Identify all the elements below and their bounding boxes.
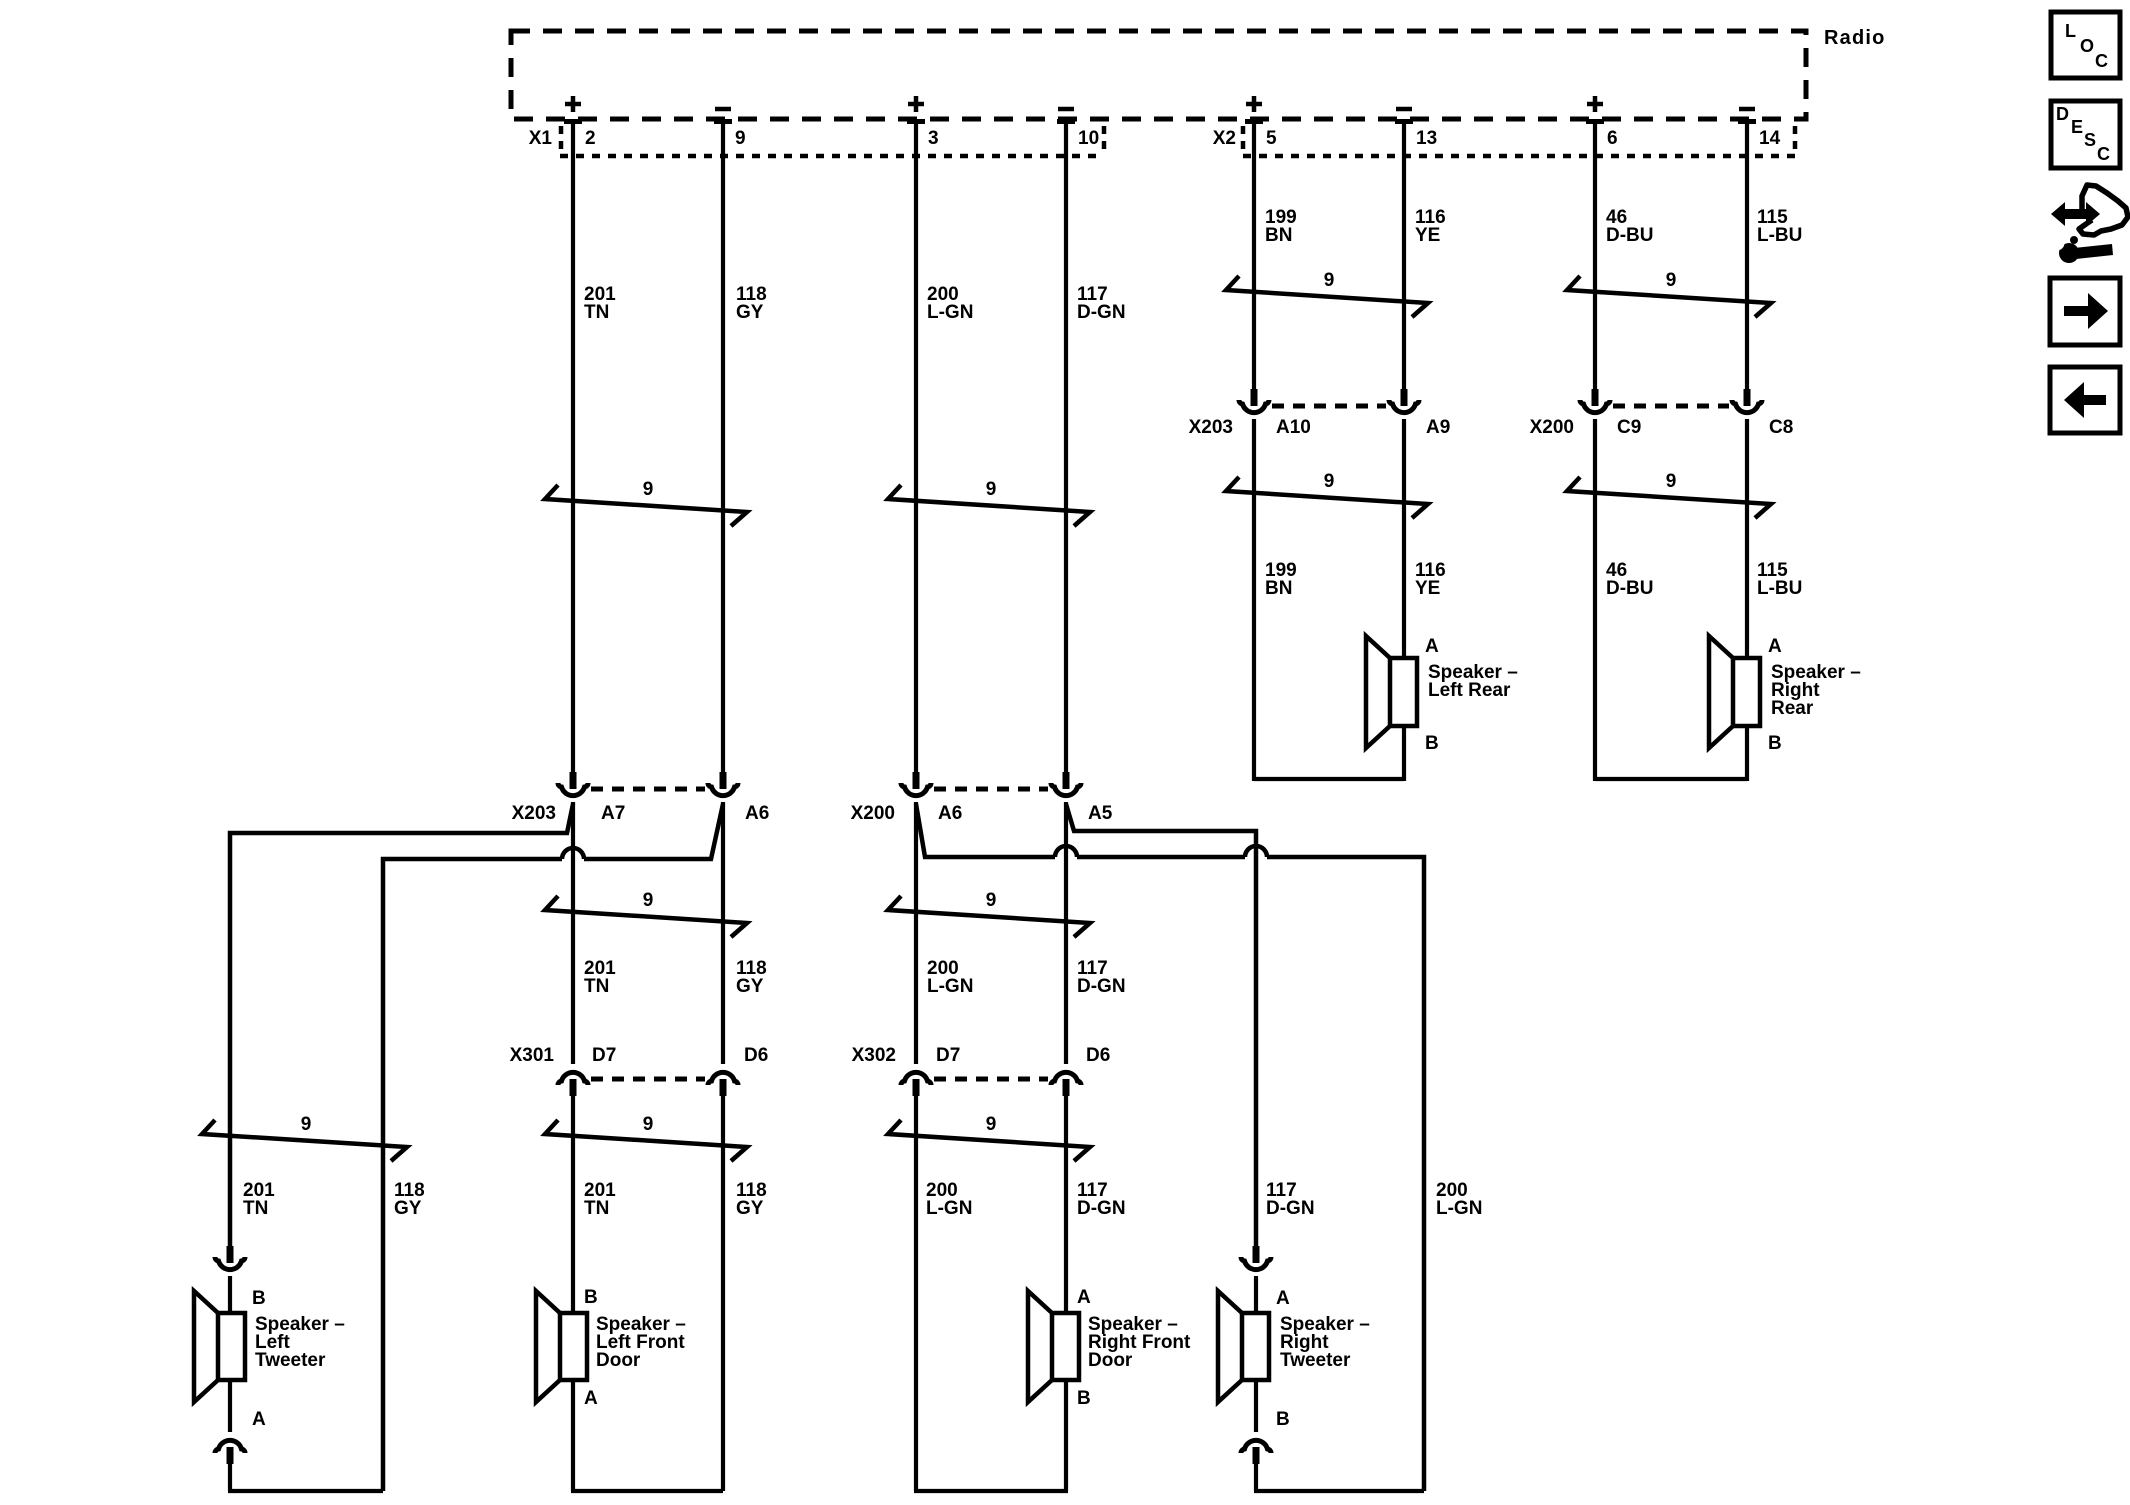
connector X203 halves dashed link (A10-A9): [1272, 404, 1386, 409]
twisted-pair symbol (door 200/117 pair): [888, 1114, 1090, 1161]
connector X301 halves dashed link (D7-D6): [591, 1077, 705, 1082]
svg-text:9: 9: [643, 479, 654, 500]
branch wire to left tweeter (201 TN): [230, 804, 573, 1247]
svg-text:YE: YE: [1415, 225, 1440, 246]
svg-text:D: D: [2056, 104, 2069, 124]
svg-text:9: 9: [1666, 471, 1677, 492]
inline connector X200 pin C9: [1580, 389, 1610, 413]
svg-text:YE: YE: [1415, 578, 1440, 599]
svg-text:L: L: [2065, 21, 2076, 41]
svg-text:C9: C9: [1617, 417, 1641, 438]
speaker Right Front Door name: [1088, 1314, 1191, 1371]
wire left tweeter to lower connector: [228, 1380, 232, 1432]
svg-text:C: C: [2097, 144, 2110, 164]
connector X200 halves dashed link (A6-A5): [934, 787, 1048, 792]
speaker Right Tweeter symbol: [1218, 1291, 1269, 1402]
svg-text:L-BU: L-BU: [1757, 578, 1802, 599]
right tweeter return loop wire: [1254, 1489, 1424, 1493]
left rear speaker return loop wire: [1254, 777, 1404, 781]
svg-text:A: A: [1077, 1287, 1091, 1308]
Radio component box (dashed): [511, 31, 1806, 119]
wire 116 YE (X203 A9 to left rear speaker): [1402, 419, 1406, 658]
svg-text:Door: Door: [1088, 1350, 1133, 1371]
wire 200 L-GN (X200 A6 to X302 D7): [914, 802, 918, 1064]
svg-text:D6: D6: [744, 1045, 768, 1066]
wire 118 GY (X203 A6 to X301 D6): [721, 802, 725, 1064]
radio pin 5 (+) terminal: [1245, 96, 1277, 149]
connector X203 labels: [1189, 417, 1451, 438]
inline connector X203 pin A10: [1239, 389, 1269, 413]
wire 201 TN (X1-2 to X203 A7): [571, 121, 575, 773]
svg-text:9: 9: [986, 890, 997, 911]
twisted-pair symbol (200/117 pair upper): [888, 479, 1090, 526]
wire 46 D-BU (X2-6 to X200 C9): [1593, 121, 1597, 390]
svg-text:B: B: [584, 1287, 598, 1308]
inline connector at left tweeter pin A: [215, 1440, 245, 1464]
wire 199 BN (X203 A10 to speaker loop): [1252, 419, 1256, 781]
svg-text:GY: GY: [736, 976, 764, 997]
svg-text:L-BU: L-BU: [1757, 225, 1802, 246]
svg-text:Rear: Rear: [1771, 698, 1814, 719]
wire 201 TN (X203 A7 to X301 D7): [571, 802, 575, 1064]
inline connector X203 pin A9: [1389, 389, 1419, 413]
inline connector X203 pin A7: [558, 772, 588, 796]
svg-text:Door: Door: [596, 1350, 641, 1371]
wire right front door speaker to loop: [1064, 1380, 1068, 1491]
inline connector X203 pin A6: [708, 772, 738, 796]
svg-text:13: 13: [1416, 128, 1437, 149]
connector X302 halves dashed link (D7-D6): [934, 1077, 1048, 1082]
svg-text:X203: X203: [512, 803, 556, 824]
svg-text:L-GN: L-GN: [927, 976, 973, 997]
svg-text:D6: D6: [1086, 1045, 1110, 1066]
svg-text:X203: X203: [1189, 417, 1233, 438]
svg-text:Tweeter: Tweeter: [1280, 1350, 1351, 1371]
svg-text:6: 6: [1607, 128, 1618, 149]
svg-text:10: 10: [1078, 128, 1099, 149]
inline connector X301 pin D7: [558, 1072, 588, 1096]
svg-text:D-GN: D-GN: [1266, 1198, 1315, 1219]
svg-text:O: O: [2080, 36, 2094, 56]
svg-text:2: 2: [585, 128, 596, 149]
legend icon back arrow box: [2050, 367, 2120, 433]
right front door return loop wire: [914, 1489, 1068, 1493]
inline connector X200 pin A6: [901, 772, 931, 796]
svg-text:TN: TN: [584, 1198, 609, 1219]
wire 117 D-GN (X200 A5 to X302 D6): [1064, 802, 1068, 1064]
svg-text:D-BU: D-BU: [1606, 225, 1654, 246]
legend icon forward arrow box: [2050, 278, 2120, 345]
wire 115 L-BU (X200 C8 to right rear speaker): [1745, 419, 1749, 658]
svg-text:A: A: [252, 1409, 266, 1430]
wire 118 GY (X1-9 to X203 A6): [721, 121, 725, 773]
inline connector X302 pin D7: [901, 1072, 931, 1096]
twisted-pair symbol (201/118 pair mid): [545, 890, 747, 937]
speaker Left Front Door name: [596, 1314, 686, 1371]
svg-text:3: 3: [928, 128, 939, 149]
wire 199 BN (X2-5 to X203 A10): [1252, 121, 1256, 390]
wire right tweeter to lower connector: [1254, 1380, 1258, 1432]
connector X1 (dotted outline): [560, 126, 1104, 156]
svg-text:B: B: [1768, 733, 1782, 754]
inline connector X302 pin D6: [1051, 1072, 1081, 1096]
radio pin 9 (-) terminal: [714, 109, 746, 149]
svg-text:A7: A7: [601, 803, 625, 824]
wire 200 L-GN (X1-3 to X200 A6): [914, 121, 918, 773]
svg-text:9: 9: [643, 890, 654, 911]
speaker Right Tweeter name: [1280, 1314, 1370, 1371]
speaker Right Rear symbol: [1709, 636, 1760, 748]
wire into left tweeter: [228, 1276, 232, 1313]
svg-text:9: 9: [735, 128, 746, 149]
svg-text:S: S: [2084, 130, 2096, 150]
wire 115 L-BU (X2-14 to X200 C8): [1745, 121, 1749, 390]
svg-text:L-GN: L-GN: [926, 1198, 972, 1219]
svg-text:X301: X301: [510, 1045, 555, 1066]
svg-text:A10: A10: [1276, 417, 1311, 438]
twisted-pair symbol (200/117 pair mid): [888, 890, 1090, 937]
svg-text:X200: X200: [1530, 417, 1574, 438]
connector X203 labels (A7/A6): [512, 803, 770, 824]
svg-text:A: A: [1276, 1288, 1290, 1309]
twisted-pair symbol (46/115 pair upper): [1567, 270, 1771, 317]
twisted-pair symbol (201/118 pair upper): [545, 479, 747, 526]
svg-text:BN: BN: [1265, 225, 1292, 246]
connector X302 labels: [852, 1045, 1111, 1066]
svg-text:X200: X200: [851, 803, 895, 824]
speaker Left Tweeter name: [255, 1314, 345, 1371]
svg-text:Tweeter: Tweeter: [255, 1350, 326, 1371]
twisted-pair symbol (tweeter 201/118 pair): [202, 1114, 407, 1161]
branch wire to right tweeter (117 D-GN): [1066, 804, 1256, 1247]
wire left front door speaker to loop: [571, 1380, 575, 1491]
wire 118 GY (X301 D6 to loop): [721, 1096, 725, 1491]
legend icon DESC box: [2051, 101, 2120, 168]
connector X203 halves dashed link (A7-A6): [591, 787, 705, 792]
svg-text:14: 14: [1759, 128, 1781, 149]
svg-text:A5: A5: [1088, 803, 1113, 824]
svg-text:A6: A6: [938, 803, 962, 824]
connector X301 labels: [510, 1045, 769, 1066]
wire left rear speaker B to loop: [1402, 726, 1406, 781]
twisted-pair symbol (199/116 pair lower): [1226, 471, 1428, 518]
connector X200 labels (A6/A5): [851, 803, 1113, 824]
speaker Left Tweeter symbol: [194, 1291, 245, 1402]
svg-text:9: 9: [986, 1114, 997, 1135]
speaker Left Rear name: [1428, 662, 1518, 701]
wire into right tweeter: [1254, 1276, 1258, 1313]
radio pin 2 (+) terminal: [564, 96, 596, 149]
svg-text:TN: TN: [584, 302, 609, 323]
inline connector at right tweeter pin A: [1241, 1246, 1271, 1270]
svg-text:9: 9: [1324, 270, 1335, 291]
svg-text:C: C: [2095, 51, 2108, 71]
svg-text:B: B: [1276, 1409, 1290, 1430]
branch wire to right tweeter return (200 L-GN): [916, 804, 1424, 1491]
svg-text:Radio: Radio: [1824, 27, 1886, 49]
svg-text:A: A: [584, 1388, 598, 1409]
svg-text:D-GN: D-GN: [1077, 1198, 1126, 1219]
left front door return loop wire: [571, 1489, 723, 1493]
svg-text:TN: TN: [584, 976, 609, 997]
svg-text:GY: GY: [736, 1198, 764, 1219]
svg-text:GY: GY: [736, 302, 764, 323]
twisted-pair symbol (door 201/118 pair): [545, 1114, 747, 1161]
radio pin 13 (-) terminal: [1395, 109, 1437, 149]
svg-text:B: B: [1077, 1388, 1091, 1409]
svg-text:A9: A9: [1426, 417, 1450, 438]
svg-text:A6: A6: [745, 803, 769, 824]
wire 117 D-GN (X302 D6 to right front door speaker): [1064, 1096, 1068, 1313]
svg-text:9: 9: [986, 479, 997, 500]
legend icon LOC box: [2051, 12, 2120, 78]
right rear speaker return loop wire: [1595, 777, 1747, 781]
speaker Left Rear symbol: [1366, 636, 1417, 748]
svg-text:A: A: [1425, 636, 1439, 657]
inline connector at left tweeter pin B: [215, 1246, 245, 1270]
svg-text:BN: BN: [1265, 578, 1292, 599]
radio pin 3 (+) terminal: [907, 96, 939, 149]
svg-text:D-BU: D-BU: [1606, 578, 1654, 599]
svg-text:9: 9: [301, 1114, 312, 1135]
legend icon wrench/diagnostic symbol: [2050, 185, 2129, 263]
svg-text:C8: C8: [1769, 417, 1793, 438]
svg-text:B: B: [1425, 733, 1439, 754]
svg-text:A: A: [1768, 636, 1782, 657]
connector X2 (dotted outline): [1243, 126, 1795, 156]
speaker Right Front Door symbol: [1028, 1291, 1079, 1402]
radio pin 14 (-) terminal: [1738, 109, 1781, 149]
inline connector X200 pin A5: [1051, 772, 1081, 796]
svg-text:D7: D7: [592, 1045, 616, 1066]
svg-text:9: 9: [643, 1114, 654, 1135]
inline connector X301 pin D6: [708, 1072, 738, 1096]
svg-text:D7: D7: [936, 1045, 960, 1066]
svg-text:L-GN: L-GN: [927, 302, 973, 323]
svg-text:TN: TN: [243, 1198, 268, 1219]
wire 201 TN (X301 D7 to left front door speaker): [571, 1096, 575, 1313]
connector X200 labels: [1530, 417, 1794, 438]
connector X200 halves dashed link (C9-C8): [1613, 404, 1729, 409]
twisted-pair symbol (46/115 pair lower): [1567, 471, 1771, 518]
svg-text:5: 5: [1266, 128, 1277, 149]
branch wire to left tweeter return (118 GY): [383, 804, 723, 1491]
svg-text:9: 9: [1666, 270, 1677, 291]
speaker Right Rear name: [1771, 662, 1861, 719]
wire 46 D-BU (X200 C9 to speaker loop): [1593, 419, 1597, 781]
wire right rear speaker B to loop: [1745, 726, 1749, 781]
twisted-pair symbol (199/116 pair upper): [1226, 270, 1428, 317]
wire 200 L-GN (X302 D7 to loop): [914, 1096, 918, 1491]
wire 117 D-GN (X1-10 to X200 A5): [1064, 121, 1068, 773]
svg-text:L-GN: L-GN: [1436, 1198, 1482, 1219]
wire right tweeter connector to loop: [1254, 1464, 1258, 1491]
svg-text:X2: X2: [1213, 128, 1236, 149]
svg-text:X302: X302: [852, 1045, 896, 1066]
radio pin 10 (-) terminal: [1057, 109, 1099, 149]
inline connector X200 pin C8: [1732, 389, 1762, 413]
svg-text:E: E: [2071, 117, 2083, 137]
left tweeter return loop wire: [228, 1489, 383, 1493]
inline connector at right tweeter pin B: [1241, 1440, 1271, 1464]
svg-text:X1: X1: [529, 128, 553, 149]
speaker Left Front Door symbol: [536, 1291, 587, 1402]
svg-text:D-GN: D-GN: [1077, 976, 1126, 997]
svg-text:GY: GY: [394, 1198, 422, 1219]
radio pin 6 (+) terminal: [1586, 96, 1618, 149]
wire left tweeter connector to loop: [228, 1464, 232, 1491]
wire 116 YE (X2-13 to X203 A9): [1402, 121, 1406, 390]
svg-text:Left Rear: Left Rear: [1428, 680, 1511, 701]
svg-text:B: B: [252, 1288, 266, 1309]
svg-text:9: 9: [1324, 471, 1335, 492]
svg-text:D-GN: D-GN: [1077, 302, 1126, 323]
